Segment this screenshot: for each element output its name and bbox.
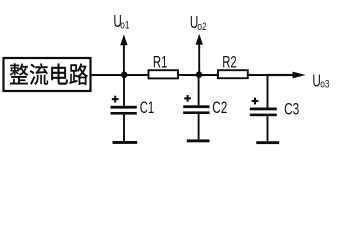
- label R2: [222, 52, 237, 71]
- label R1: [153, 52, 168, 71]
- rectifier circuit block U0: [4, 58, 91, 91]
- junction node A: [121, 72, 128, 79]
- voltage arrow U_o1: [120, 34, 127, 75]
- label U_o2: [190, 13, 207, 33]
- junction node B: [196, 71, 203, 78]
- label C1: [140, 98, 155, 117]
- svg-text:C1: C1: [140, 98, 155, 117]
- svg-text:o2: o2: [197, 21, 206, 33]
- svg-text:o3: o3: [320, 79, 329, 91]
- resistor R1: [149, 70, 179, 78]
- svg-text:C3: C3: [284, 101, 299, 119]
- resistor R2: [218, 70, 248, 78]
- wire: R1 to R2: [177, 74, 220, 76]
- label 整流电路 (rectifier circuit): [10, 63, 88, 85]
- label U_o1: [113, 12, 129, 32]
- label U_o3: [312, 71, 329, 91]
- label C3: [284, 101, 299, 119]
- svg-text:C2: C2: [212, 99, 227, 117]
- svg-text:R1: R1: [153, 52, 168, 71]
- capacitor C3: [250, 75, 279, 144]
- wire: R2 to C3 tap: [247, 74, 269, 76]
- voltage arrow U_o2: [196, 34, 203, 75]
- svg-text:R2: R2: [222, 52, 237, 71]
- capacitor C2: [183, 75, 209, 142]
- wire: block output to R1: [91, 74, 150, 76]
- voltage arrow U_o3 (output): [267, 72, 306, 79]
- label C2: [212, 99, 227, 117]
- svg-text:o1: o1: [120, 20, 129, 32]
- capacitor C1: [111, 75, 138, 144]
